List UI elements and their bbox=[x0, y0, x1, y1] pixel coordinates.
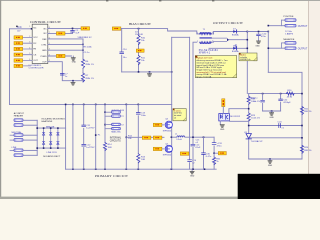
svg-text:B340A: B340A bbox=[232, 50, 239, 53]
svg-text:Iq typ. 7 / 10 mA: Iq typ. 7 / 10 mA bbox=[196, 75, 212, 78]
bus junctions bottom bbox=[72, 168, 74, 170]
node pin1 junction bbox=[31, 28, 33, 30]
vertical X cap line 2 bbox=[83, 104, 85, 169]
aux winding line bbox=[104, 104, 106, 169]
svg-text:OUT: OUT bbox=[42, 62, 47, 64]
svg-text:470u: 470u bbox=[217, 146, 223, 148]
output inductor L1 bbox=[175, 134, 185, 142]
net label source bbox=[180, 152, 189, 155]
svg-text:OUT: OUT bbox=[33, 60, 38, 62]
svg-text:CONTROLLER: CONTROLLER bbox=[29, 68, 44, 70]
resistor R22 bbox=[247, 96, 260, 104]
snub bottom wire bbox=[263, 110, 281, 112]
svg-text:R5 100k: R5 100k bbox=[84, 47, 93, 49]
transistor Q1 bbox=[163, 119, 173, 133]
svg-text:NEGATIVE: NEGATIVE bbox=[283, 38, 294, 41]
svg-text:GND: GND bbox=[72, 62, 77, 64]
transformer T1 bbox=[197, 29, 214, 44]
ground snub bbox=[270, 111, 275, 119]
net label row6 bbox=[56, 54, 65, 57]
wire row5 to rail bbox=[48, 49, 83, 51]
svg-text:1 AMPS: 1 AMPS bbox=[285, 32, 293, 35]
wire to J5 bbox=[268, 47, 285, 49]
net label gate bottom bbox=[153, 147, 164, 150]
diode D8 bbox=[232, 46, 239, 54]
capacitor C21 bbox=[251, 98, 264, 103]
junction sense right bbox=[301, 93, 303, 95]
capacitor CX1 bbox=[82, 125, 95, 130]
wire left rail bbox=[9, 29, 11, 105]
secondary tap wedge bbox=[227, 38, 229, 41]
svg-text:698 1%: 698 1% bbox=[304, 111, 311, 113]
right sheet border line bbox=[307, 0, 310, 199]
svg-text:ISOLATED RECT: ISOLATED RECT bbox=[43, 155, 61, 158]
secondary tap wire bbox=[229, 39, 248, 41]
capacitor CX2 bbox=[82, 144, 95, 149]
junction bias chain bbox=[171, 71, 173, 73]
svg-text:MAG-INC: MAG-INC bbox=[111, 131, 121, 134]
junction filter clamp rail bbox=[192, 136, 194, 138]
bias bottom wire bbox=[122, 71, 172, 73]
svg-text:HEATSINK: HEATSINK bbox=[42, 120, 53, 123]
svg-text:3.3uH: 3.3uH bbox=[176, 139, 182, 141]
J4 pin bracket bbox=[281, 20, 283, 26]
wire to J4 top bbox=[268, 25, 285, 27]
svg-text:OUTPUT: OUTPUT bbox=[298, 48, 308, 50]
net label gate mid 1 bbox=[142, 136, 151, 139]
bridge bottom rail bbox=[37, 147, 65, 149]
resistor R11 bbox=[137, 56, 146, 65]
junction J5 bbox=[268, 47, 270, 49]
svg-text:1u/275V: 1u/275V bbox=[86, 147, 95, 149]
net label IN3 bbox=[14, 47, 23, 50]
junction output branch bbox=[268, 31, 270, 33]
wire VCC to pin1 bbox=[10, 28, 33, 30]
capacitor C7 on row7 drop bbox=[60, 73, 68, 77]
junction output bottom bbox=[269, 158, 271, 160]
svg-text:4700pF: 4700pF bbox=[283, 102, 291, 104]
svg-text:10.0k 1%: 10.0k 1% bbox=[251, 101, 260, 103]
junction row5 rail bbox=[82, 49, 84, 51]
net label IN4 bbox=[14, 53, 23, 56]
net label row2 bbox=[56, 32, 65, 35]
svg-text:OUTPUT: OUTPUT bbox=[298, 26, 308, 28]
wire node to L1 bbox=[172, 136, 177, 138]
junction cap feedback right bbox=[301, 125, 303, 127]
svg-text:CONTROL CIRCUIT: CONTROL CIRCUIT bbox=[30, 20, 62, 24]
note output spec bbox=[239, 53, 257, 61]
bus junctions top bbox=[65, 104, 67, 106]
wire opto in from rail bbox=[229, 109, 249, 114]
svg-text:INTERNAL: INTERNAL bbox=[110, 137, 122, 140]
aux connector pin 3 bbox=[105, 123, 125, 126]
svg-text:CIRCUITS: CIRCUITS bbox=[110, 140, 121, 142]
junction bias bottom 2 bbox=[149, 71, 151, 73]
junction fuse line bbox=[95, 134, 97, 136]
bridge collector rail bbox=[36, 120, 38, 155]
rectifier output riser bbox=[65, 104, 67, 169]
wire clamp rail 2 bbox=[193, 42, 197, 169]
junction sense line bbox=[126, 137, 128, 139]
junction bias mid bbox=[138, 50, 140, 52]
connector J3 pin B bbox=[14, 154, 37, 157]
snub cap branch 2 bbox=[280, 94, 282, 111]
bridge junctions bottom bbox=[43, 147, 45, 149]
svg-text:47nF: 47nF bbox=[195, 147, 201, 149]
secondary top wire bbox=[214, 32, 248, 34]
junction cap feedback left bbox=[248, 125, 250, 127]
resistor divider rail bbox=[138, 29, 140, 72]
filter cap branch right bbox=[213, 137, 215, 169]
transistor Q2 bbox=[163, 143, 173, 156]
ground primary bus bbox=[190, 169, 195, 177]
svg-text:49.9k: 49.9k bbox=[287, 97, 293, 99]
net label bias in bbox=[112, 27, 121, 30]
connector J1 pin A bbox=[14, 119, 37, 122]
capacitor C16 clamp bbox=[188, 160, 197, 165]
connector J1 pin B bbox=[14, 124, 37, 127]
ground output bottom bbox=[268, 159, 273, 167]
capacitor C30 bbox=[202, 153, 212, 158]
wire cap feedback bbox=[249, 125, 302, 127]
opto U2 bbox=[219, 114, 241, 121]
net label row1 bbox=[81, 27, 90, 30]
svg-text:B340A: B340A bbox=[232, 33, 239, 36]
diode D3 bbox=[42, 128, 44, 148]
ground output cap bbox=[255, 41, 260, 47]
sense wire bbox=[249, 93, 302, 95]
svg-text:470u: 470u bbox=[261, 36, 267, 38]
output riser bbox=[267, 32, 269, 73]
ground row6 bbox=[71, 56, 76, 64]
capacitor C31 bbox=[212, 143, 222, 148]
output rectifier rail bbox=[246, 32, 248, 94]
aux connector pin 4 bbox=[105, 127, 120, 130]
output jog to right rail bbox=[268, 72, 302, 159]
aux connector pin 1 bbox=[105, 111, 120, 114]
svg-text:CTRL: CTRL bbox=[41, 44, 47, 46]
junction bridge left bottom bbox=[36, 147, 38, 149]
wire opto out to rail bbox=[230, 120, 249, 122]
junction bias bottom bbox=[138, 71, 140, 73]
svg-text:0.47u: 0.47u bbox=[206, 156, 212, 158]
ground bias bbox=[148, 72, 152, 76]
svg-text:REF: REF bbox=[42, 39, 47, 41]
connector J2 pin B bbox=[10, 139, 37, 142]
wire opto to ground bbox=[219, 121, 221, 125]
svg-text:499k 1%: 499k 1% bbox=[85, 78, 94, 80]
svg-text:PULSE PA0184: PULSE PA0184 bbox=[199, 49, 219, 52]
svg-text:XFMR 4:1: XFMR 4:1 bbox=[199, 53, 211, 55]
diode D7 bbox=[232, 29, 239, 37]
svg-text:VCC: VCC bbox=[33, 37, 38, 39]
svg-text:1uF: 1uF bbox=[75, 33, 79, 35]
net label gate mid 2 bbox=[153, 136, 162, 139]
vertical X cap line 1 bbox=[72, 104, 74, 169]
svg-text:499k 1%: 499k 1% bbox=[85, 64, 94, 66]
resistor R10 bbox=[137, 36, 146, 45]
capacitor C10 rail bbox=[121, 29, 123, 72]
svg-text:HEADER: HEADER bbox=[14, 114, 24, 117]
junction rect rail mid bbox=[247, 39, 249, 41]
diode D5 bbox=[57, 128, 59, 148]
junction opto rail bbox=[248, 108, 250, 110]
connector J2 pin A bbox=[10, 134, 37, 137]
net label gate top bbox=[153, 123, 164, 126]
resistor R7 bbox=[81, 73, 94, 82]
junction rect rail top bbox=[247, 31, 249, 33]
secondary bottom wire bbox=[209, 47, 247, 49]
svg-text:IRFR320: IRFR320 bbox=[163, 130, 172, 132]
gate drive wire mid bbox=[126, 136, 164, 138]
snub cap branch 1 bbox=[262, 94, 264, 111]
connector J5 pin 1 bbox=[282, 42, 297, 45]
junction aux 1 bbox=[104, 111, 106, 113]
filter top wire bbox=[185, 136, 214, 138]
capacitor C13 bbox=[136, 113, 146, 118]
junction bridge left top bbox=[36, 127, 38, 129]
svg-text:RC: RC bbox=[33, 43, 37, 45]
gate res line bbox=[137, 104, 139, 169]
diode D4 bbox=[50, 128, 52, 148]
svg-text:AC INPUT: AC INPUT bbox=[14, 112, 25, 115]
svg-text:NC: NC bbox=[33, 27, 37, 29]
filter cap branch mid bbox=[203, 137, 205, 169]
junction aux 2 bbox=[104, 124, 106, 126]
svg-text:GND: GND bbox=[268, 165, 273, 167]
wire row1 right bbox=[48, 27, 81, 29]
svg-text:IRFR320: IRFR320 bbox=[163, 155, 172, 157]
junction snub gnd bbox=[271, 110, 273, 112]
svg-text:GND: GND bbox=[270, 117, 275, 119]
top window edge bbox=[0, 0, 320, 1]
wire label to opto bbox=[222, 107, 224, 114]
junction filter mid bbox=[203, 136, 205, 138]
svg-text:PGND: PGND bbox=[41, 56, 48, 58]
capacitor C24 on wire bbox=[278, 122, 285, 130]
svg-text:ISOLATED MOUNTING: ISOLATED MOUNTING bbox=[42, 118, 65, 121]
svg-text:LINE 115V: LINE 115V bbox=[47, 152, 58, 154]
output bottom wire bbox=[249, 158, 302, 160]
svg-text:2: 2 bbox=[197, 41, 198, 43]
junction rect rail bottom bbox=[247, 48, 249, 50]
resistor R21 on right rail bbox=[300, 107, 311, 115]
svg-text:GND: GND bbox=[220, 129, 225, 131]
junction row4 rail bbox=[82, 44, 84, 46]
svg-text:GND: GND bbox=[42, 50, 47, 52]
junction row7 gnd bbox=[72, 80, 74, 82]
right sheet margin bbox=[309, 0, 320, 199]
vertical net label opto bbox=[222, 99, 225, 107]
junction sense mid bbox=[280, 93, 282, 95]
svg-text:698 1%: 698 1% bbox=[304, 150, 311, 152]
svg-text:10R: 10R bbox=[141, 159, 145, 161]
aux tap symbol bbox=[235, 44, 238, 47]
junction filter label bbox=[213, 152, 215, 154]
wire row6 right bbox=[48, 55, 72, 57]
wire row7 OUT jog down bbox=[48, 62, 84, 81]
svg-text:BIAS CIRCUIT: BIAS CIRCUIT bbox=[129, 22, 152, 26]
resistor R24 on right rail bbox=[300, 145, 311, 153]
capacitor C20 electrolytic bbox=[257, 32, 267, 40]
svg-text:NC: NC bbox=[44, 33, 48, 35]
ground row7 bbox=[71, 81, 75, 85]
net label filter bbox=[214, 152, 226, 155]
svg-text:TL431ACLP: TL431ACLP bbox=[251, 140, 263, 143]
ground opto bbox=[220, 125, 225, 131]
redaction black rectangle bbox=[238, 174, 320, 199]
svg-text:C5 1n: C5 1n bbox=[84, 52, 91, 54]
svg-text:VREF/REF 5V: VREF/REF 5V bbox=[78, 37, 93, 39]
secondary tap wire pair bbox=[211, 38, 226, 41]
svg-text:1u/275V: 1u/275V bbox=[86, 128, 95, 130]
junction J4 bbox=[268, 25, 270, 27]
junction bias top bbox=[138, 28, 140, 30]
net label IN1 bbox=[14, 36, 23, 39]
resistor rail vertical bbox=[82, 39, 84, 82]
svg-text:NC: NC bbox=[44, 28, 48, 30]
svg-text:PRIMARY CIRCUIT: PRIMARY CIRCUIT bbox=[95, 174, 129, 178]
junction TL431 rail bbox=[301, 137, 303, 139]
wire TL431 to rail bbox=[250, 137, 302, 139]
connector J4 pin 1 bbox=[282, 19, 297, 22]
primary bottom bus bbox=[66, 168, 217, 170]
svg-text:OUTPUT CIRCUIT: OUTPUT CIRCUIT bbox=[213, 21, 244, 25]
junction row1 bbox=[72, 28, 74, 30]
left window edge bbox=[0, 0, 1, 199]
resistor R20 horizontal bbox=[286, 90, 294, 99]
svg-text:100n: 100n bbox=[141, 115, 147, 117]
note gate spec bbox=[173, 109, 186, 121]
connector J3 pin A bbox=[10, 149, 37, 152]
wire clamp rail 1 bbox=[189, 37, 191, 169]
primary top bus bbox=[10, 103, 172, 105]
wire row2 right bbox=[48, 32, 73, 34]
resistor R23 bbox=[247, 113, 260, 121]
net label IN6 bbox=[14, 64, 23, 67]
sense line bbox=[125, 104, 127, 169]
capacitor C22 bbox=[279, 99, 292, 104]
svg-text:POSITIVE: POSITIVE bbox=[283, 16, 294, 18]
feedback rail bbox=[248, 94, 250, 159]
wire A bias top bbox=[121, 29, 200, 34]
svg-text:ok: ok bbox=[174, 117, 176, 119]
aux connector pin 2 bbox=[105, 115, 125, 118]
svg-text:1: 1 bbox=[29, 26, 30, 28]
net label IN2 bbox=[14, 42, 23, 45]
J5 pin bracket bbox=[281, 43, 283, 48]
resistor R6 bbox=[81, 59, 94, 68]
resistor R13 bbox=[137, 154, 146, 163]
bridge top rail bbox=[37, 127, 65, 129]
svg-text:10R: 10R bbox=[108, 147, 112, 149]
junction mid node bbox=[171, 136, 173, 138]
bridge junctions top bbox=[43, 127, 45, 129]
MOSFET chain wire bbox=[171, 37, 173, 169]
capacitor C10 bbox=[120, 49, 128, 59]
capacitor C14 clamp bbox=[191, 144, 201, 149]
note big spec bbox=[195, 56, 236, 79]
shunt U3 TL431 bbox=[244, 132, 263, 143]
resistor R14 inrush bbox=[103, 143, 112, 151]
net label IN5 bbox=[14, 59, 23, 62]
connector J5 pin 2 bbox=[285, 47, 308, 50]
bottom window edge bbox=[0, 197, 320, 199]
svg-text:40V/3A 1 ok: 40V/3A 1 ok bbox=[240, 58, 250, 61]
capacitor C row1-row2 bbox=[71, 29, 80, 34]
svg-text:3: 3 bbox=[212, 41, 213, 43]
svg-text:1: 1 bbox=[197, 33, 198, 35]
fuse line bbox=[95, 104, 97, 169]
wire row3 REF to rail bbox=[48, 38, 83, 40]
svg-text:GND: GND bbox=[190, 176, 195, 178]
op-amp U1 controller IC bbox=[32, 24, 48, 63]
junction sense left bbox=[262, 93, 264, 95]
net label bias mid bbox=[136, 49, 144, 52]
output node wire bbox=[247, 31, 268, 33]
svg-text:MOC8112: MOC8112 bbox=[230, 116, 241, 118]
wire B drain to clamp bbox=[172, 36, 190, 38]
wire row4 to rail bbox=[48, 43, 83, 45]
resistor R30 bbox=[213, 157, 222, 165]
connector J4 pin 2 bbox=[285, 24, 308, 27]
svg-text:GND: GND bbox=[255, 45, 260, 47]
svg-text:10.0k 1%: 10.0k 1% bbox=[251, 118, 260, 120]
junction output cap bbox=[258, 31, 260, 33]
pin stub left 2 bbox=[23, 38, 32, 66]
